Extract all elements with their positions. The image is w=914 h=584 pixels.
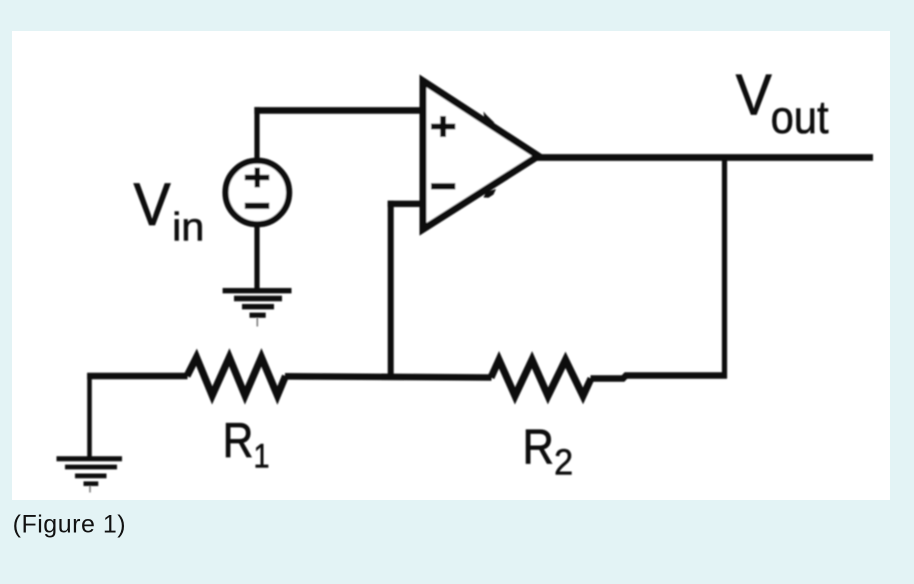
wire: ground leg bottom-left xyxy=(87,373,92,459)
svg-text:V: V xyxy=(736,64,773,128)
white figure panel xyxy=(12,31,890,500)
op-amp minus input marker xyxy=(431,183,455,189)
svg-text:in: in xyxy=(172,206,204,250)
svg-text:V: V xyxy=(134,171,171,238)
wire: R2 to output riser xyxy=(591,376,728,379)
minus sign inside source xyxy=(245,203,269,209)
svg-text:2: 2 xyxy=(554,442,573,483)
node: output riser vertical xyxy=(722,158,727,379)
wire: op-amp output to right edge xyxy=(536,154,873,161)
ground bottom-left xyxy=(57,459,123,493)
svg-text:out: out xyxy=(771,91,829,143)
svg-text:R: R xyxy=(223,413,254,468)
voltage source Vin circle xyxy=(225,161,289,225)
wire: Vin top vertical xyxy=(254,107,259,158)
wire: Vin bottom to ground xyxy=(254,226,259,291)
op-amp plus input marker xyxy=(431,116,455,137)
svg-text:R: R xyxy=(523,419,554,474)
resistor R2 xyxy=(491,360,591,396)
wire: top rail to op-amp non-inverting input xyxy=(254,107,426,114)
plus sign inside source xyxy=(245,168,269,188)
mark: arrowhead on top edge xyxy=(484,112,495,124)
svg-text:1: 1 xyxy=(254,438,270,476)
wire: feedback vertical xyxy=(388,201,394,378)
wire: bottom rail left xyxy=(87,373,187,380)
ground under Vin xyxy=(223,291,292,327)
mark: arrowhead on bottom edge xyxy=(484,189,497,198)
wire: between R1 and R2 xyxy=(285,376,492,377)
wire: inverting input stub xyxy=(388,201,425,207)
op-amp U1 triangle xyxy=(423,81,538,229)
resistor R1 xyxy=(187,357,286,395)
svg-text:(Figure 1): (Figure 1) xyxy=(13,510,126,538)
